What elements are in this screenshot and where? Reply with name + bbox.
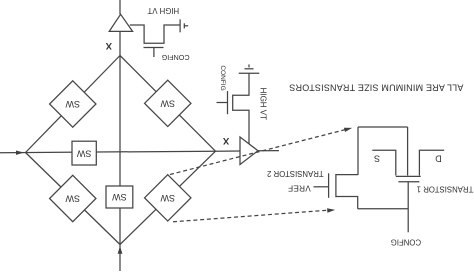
- svg-text:X: X: [222, 135, 229, 146]
- svg-text:HIGH VT: HIGH VT: [258, 88, 267, 121]
- svg-text:TRANSISTOR 2: TRANSISTOR 2: [267, 169, 324, 178]
- svg-text:VREF: VREF: [288, 184, 311, 193]
- svg-text:SW: SW: [65, 99, 80, 109]
- svg-text:CONFIG: CONFIG: [219, 65, 226, 90]
- svg-text:SW: SW: [65, 194, 80, 204]
- svg-text:SW: SW: [76, 148, 91, 158]
- svg-text:TRANSISTOR 1: TRANSISTOR 1: [417, 184, 474, 193]
- svg-text:CONFIG: CONFIG: [161, 53, 189, 62]
- svg-text:SW: SW: [112, 192, 127, 202]
- svg-text:SW: SW: [160, 193, 175, 203]
- svg-text:CONFIG: CONFIG: [391, 238, 421, 247]
- svg-text:S: S: [374, 153, 380, 163]
- svg-text:D: D: [435, 153, 442, 163]
- svg-text:ALL ARE MINIMUM SIZE TRANSISTO: ALL ARE MINIMUM SIZE TRANSISTORS: [289, 83, 463, 93]
- svg-text:X: X: [105, 40, 112, 51]
- svg-text:HIGH VT: HIGH VT: [147, 6, 179, 15]
- svg-text:SW: SW: [160, 98, 175, 108]
